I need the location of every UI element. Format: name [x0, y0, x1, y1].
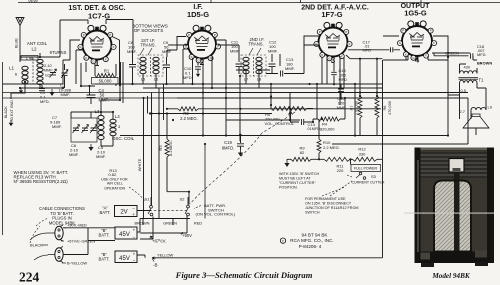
wire coil tops: [20, 20, 88, 57]
wire tube4 leads: [383, 53, 470, 60]
coil L7: [243, 57, 249, 61]
svg-text:MMF.: MMF.: [96, 154, 106, 159]
wire v3: [239, 76, 241, 141]
svg-text:F: F: [425, 54, 427, 58]
svg-text:P: P: [188, 33, 190, 37]
capacitor C19: [237, 144, 244, 146]
plug 1: [55, 226, 63, 240]
svg-text:"CURRENT CUTTER": "CURRENT CUTTER": [279, 181, 316, 185]
capacitor C13: [281, 71, 283, 77]
wire border right: [382, 60, 384, 258]
bus junction dots: [202, 91, 204, 93]
svg-text:P: P: [402, 29, 404, 33]
svg-text:Model 94BK: Model 94BK: [431, 272, 471, 280]
svg-text:TRANS.: TRANS.: [248, 42, 263, 47]
svg-text:270,000: 270,000: [354, 100, 359, 115]
transformer T1 primary: [460, 71, 478, 74]
wire output section: [448, 56, 486, 135]
wire bus8: [120, 135, 448, 137]
svg-text:OF SOCKETS: OF SOCKETS: [134, 28, 164, 33]
variable capacitor C6: [82, 128, 88, 130]
svg-text:S2: S2: [180, 197, 186, 202]
wire coil bottoms: [20, 82, 63, 88]
svg-text:330: 330: [359, 152, 366, 157]
svg-text:R1: R1: [104, 69, 110, 74]
svg-text:F: F: [105, 57, 107, 61]
top rule ticks: [211, 0, 421, 3]
IF1 core dashes: [150, 57, 152, 76]
svg-text:MFD.: MFD.: [477, 52, 487, 57]
svg-text:K: K: [321, 53, 323, 57]
IF2 core dashes: [253, 57, 255, 76]
svg-text:−: −: [133, 235, 136, 240]
svg-text:MUST BE LEFT AT: MUST BE LEFT AT: [279, 177, 311, 181]
resistor R10: [317, 139, 321, 153]
tube V2 1D5-G socket: [183, 25, 220, 67]
svg-text:F: F: [433, 41, 435, 45]
svg-text:L3: L3: [95, 109, 100, 114]
svg-text:B-YELLOW: B-YELLOW: [67, 261, 87, 266]
svg-text:T1: T1: [479, 78, 485, 83]
svg-text:RED: RED: [194, 221, 202, 226]
wire tube1 left: [63, 40, 80, 70]
svg-text:MMF.: MMF.: [230, 49, 240, 54]
battery B2: [115, 251, 137, 263]
svg-text:P: P: [319, 30, 321, 34]
resistor 48ohm box: [21, 56, 38, 61]
wire v7: [316, 84, 318, 119]
wire v5: [289, 93, 291, 121]
coil L8: [256, 57, 262, 61]
svg-text:MFD.: MFD.: [40, 99, 50, 104]
variable capacitor C3: [62, 73, 68, 75]
svg-text:TO EXT GND.: TO EXT GND.: [10, 99, 14, 122]
svg-text:AIR CELL: AIR CELL: [107, 182, 123, 186]
ground C19: [240, 150, 242, 153]
top rule: [18, 2, 500, 4]
svg-text:2-10: 2-10: [44, 64, 52, 68]
wire tube1 pin drops: [76, 37, 120, 87]
svg-text:OSC. COIL: OSC. COIL: [112, 136, 135, 141]
svg-text:MMF.: MMF.: [52, 124, 62, 129]
svg-text:F: F: [341, 54, 343, 58]
svg-text:S1: S1: [145, 197, 151, 202]
svg-text:8MFD.: 8MFD.: [222, 146, 235, 151]
svg-text:2.7: 2.7: [460, 109, 465, 114]
svg-text:45V: 45V: [119, 256, 130, 262]
svg-text:P: P: [430, 29, 432, 33]
wire white: [143, 98, 145, 219]
wire if can bottoms: [143, 74, 259, 88]
svg-text:RCA MFG. CO., INC.: RCA MFG. CO., INC.: [290, 238, 333, 243]
wire v21: [467, 98, 469, 144]
wire v12: [318, 119, 320, 159]
wire osc drop: [101, 84, 120, 115]
svg-text:1: 1: [95, 59, 100, 68]
svg-text:+: +: [133, 252, 136, 257]
svg-text:BATT.: BATT.: [99, 210, 110, 215]
svg-text:VOL. CONTROL: VOL. CONTROL: [265, 121, 296, 126]
svg-text:−: −: [132, 206, 135, 211]
svg-text:K: K: [85, 56, 87, 60]
svg-text:-B: -B: [153, 263, 158, 268]
wire yellow: [152, 257, 383, 259]
wire tube23 links: [168, 40, 318, 88]
ground osc: [90, 144, 92, 147]
wire v2: [225, 88, 227, 135]
svg-text:0.5: 0.5: [461, 88, 466, 93]
svg-text:1F7-G: 1F7-G: [321, 10, 342, 19]
svg-text:GREEN: GREEN: [163, 221, 177, 226]
wire tube2 grid pin: [167, 37, 186, 58]
wire bus5: [241, 108, 382, 110]
ground R9: [286, 160, 288, 163]
wire speaker down: [475, 128, 477, 135]
wire osc cluster: [71, 112, 113, 146]
wire bus1: [95, 83, 383, 85]
wire mech link: [190, 112, 295, 204]
svg-text:F: F: [113, 45, 115, 49]
trimmer 2-10 G2: [50, 73, 56, 75]
wire left border: [2, 62, 4, 235]
capacitor C4: [87, 95, 96, 98]
wire bus9: [313, 98, 345, 119]
variable capacitor C7a: [73, 128, 79, 130]
wire v1: [203, 84, 241, 136]
capacitor C14: [302, 119, 304, 125]
svg-text:(ON VOL. CONTROL): (ON VOL. CONTROL): [196, 212, 236, 217]
transformer T1 secondary: [460, 80, 478, 83]
svg-text:56,000: 56,000: [99, 79, 112, 84]
wire switch outputs: [140, 216, 190, 240]
svg-text:F: F: [210, 56, 212, 60]
svg-text:MMF.: MMF.: [268, 49, 278, 54]
svg-text:C19: C19: [224, 140, 232, 145]
wire v10: [359, 59, 361, 135]
svg-text:P: P: [109, 33, 111, 37]
svg-text:MMF: MMF: [44, 69, 53, 73]
ground C1: [51, 89, 53, 92]
tube V4 1G5-G socket: [397, 21, 436, 65]
wire bus2: [143, 87, 383, 89]
resistor R12: [353, 157, 378, 161]
capacitor C12: [269, 64, 276, 66]
svg-text:3: 3: [118, 124, 121, 129]
resistor R6: [375, 96, 379, 118]
coil L5: [140, 57, 146, 61]
svg-text:P: P: [345, 30, 347, 34]
coil L3: [98, 115, 104, 119]
svg-text:+67½V.-GREEN: +67½V.-GREEN: [67, 239, 95, 244]
wire tube2 pin drops: [183, 49, 212, 88]
transformer T1 core: [459, 78, 479, 80]
wire R1 loop: [81, 62, 123, 103]
svg-text:P: P: [214, 33, 216, 37]
battery A: [115, 206, 138, 217]
wire v11: [376, 59, 378, 135]
svg-text:BATT.: BATT.: [98, 256, 109, 261]
gnd arrow black: [10, 120, 12, 123]
svg-text:WITH 135V. 'B' SWITCH: WITH 135V. 'B' SWITCH: [279, 172, 320, 176]
antenna: [16, 18, 24, 58]
svg-text:YELLOW: YELLOW: [157, 253, 174, 258]
svg-text:BROWN: BROWN: [135, 221, 150, 226]
coil L6: [153, 57, 159, 61]
svg-text:1G5-G: 1G5-G: [404, 9, 427, 18]
wire v8: [339, 76, 341, 105]
capacitor C9: [163, 65, 170, 67]
wire v6: [271, 97, 313, 109]
svg-text:0.82: 0.82: [108, 172, 117, 177]
coil L9: [471, 107, 486, 110]
svg-text:OPERATION: OPERATION: [104, 186, 125, 190]
svg-text:430: 430: [464, 65, 471, 70]
svg-text:94 BT 94 BK: 94 BT 94 BK: [302, 233, 329, 238]
trimmer box: [71, 118, 97, 142]
svg-text:1D5-G: 1D5-G: [187, 10, 209, 19]
wire v16: [167, 114, 189, 205]
svg-text:ON 135V. 'B' DISCONNECT: ON 135V. 'B' DISCONNECT: [305, 202, 352, 206]
wire tube3 right pin: [346, 55, 383, 59]
svg-text:2.2 MEG.: 2.2 MEG.: [323, 145, 340, 150]
svg-text:S3: S3: [371, 174, 377, 179]
svg-text:2: 2: [200, 58, 205, 67]
wire bus10: [332, 136, 468, 145]
svg-text:−: −: [133, 258, 136, 263]
svg-text:8.2MEG.: 8.2MEG.: [168, 140, 173, 156]
svg-text:P: P: [83, 33, 85, 37]
svg-text:F: F: [349, 42, 351, 46]
capacitor C16: [338, 89, 344, 91]
wire v18: [158, 88, 160, 219]
capacitor C18: [471, 53, 473, 59]
svg-text:MMF.: MMF.: [127, 49, 137, 54]
wire tube1 cap wires: [106, 20, 133, 51]
potentiometer R5: [271, 107, 307, 111]
switch link dash: [145, 209, 189, 211]
resistor R2: [178, 107, 198, 111]
svg-text:VIEW!: VIEW!: [28, 0, 38, 3]
svg-text:FOR PERMANENT USE: FOR PERMANENT USE: [305, 197, 346, 201]
svg-text:MFD.: MFD.: [183, 75, 193, 80]
wire tube3 pin drops: [322, 56, 344, 88]
IF1 box: [138, 55, 163, 76]
svg-text:ANT COIL: ANT COIL: [27, 41, 48, 46]
svg-text:BLUE: BLUE: [15, 38, 19, 48]
svg-text:WHITE: WHITE: [137, 158, 142, 171]
resistor R4: [318, 117, 340, 121]
wire ant coupling: [3, 57, 64, 84]
svg-text:2.2 MEG.: 2.2 MEG.: [180, 116, 198, 121]
wire plug cables: [30, 233, 48, 260]
svg-text:JUNCTION OF R11&R12 FROM: JUNCTION OF R11&R12 FROM: [305, 206, 358, 210]
coil L2: [37, 59, 43, 63]
capacitor C8: [129, 65, 136, 67]
photo radio cabinet: [404, 148, 494, 268]
wire v4: [270, 84, 272, 105]
coil L4: [110, 119, 116, 123]
svg-text:L2: L2: [31, 47, 37, 52]
svg-text:6: 6: [15, 72, 18, 77]
IF2 box: [241, 55, 266, 76]
wire bus3: [162, 92, 468, 94]
wire L1 bottom to gnd: [11, 82, 25, 99]
svg-text:P-84205- 4: P-84205- 4: [299, 244, 322, 249]
svg-text:9TURNS: 9TURNS: [50, 50, 67, 55]
svg-text:820,000: 820,000: [320, 127, 335, 132]
wire bus4: [177, 97, 468, 99]
svg-text:L4: L4: [115, 114, 120, 119]
svg-text:C14: C14: [308, 122, 316, 127]
wire red drop: [204, 144, 206, 219]
svg-text:POSITION.: POSITION.: [279, 186, 298, 190]
capacitor C11: [236, 64, 243, 66]
resistor R9: [291, 157, 311, 161]
svg-text:Figure 3—Schematic Circuit Dia: Figure 3—Schematic Circuit Diagram: [175, 270, 313, 280]
svg-text:BLACK: BLACK: [4, 106, 8, 118]
svg-text:+67½V.: +67½V.: [152, 239, 166, 244]
svg-text:L1: L1: [9, 66, 15, 71]
variable capacitor C5: [91, 128, 97, 130]
battery B1: [115, 227, 137, 239]
capacitor C15: [331, 72, 337, 74]
svg-text:K: K: [405, 52, 407, 56]
svg-text:+: +: [132, 212, 135, 217]
plug dash lines: [30, 218, 48, 243]
wire tube4 pin drops: [383, 56, 448, 60]
wire v14: [286, 158, 288, 161]
svg-text:470,000: 470,000: [387, 100, 392, 115]
svg-text:+: +: [133, 228, 136, 233]
svg-text:+90V: +90V: [182, 233, 192, 238]
wire ant junctions: [39, 56, 41, 58]
svg-text:3: 3: [331, 56, 336, 65]
svg-text:.01MFD: .01MFD: [307, 127, 321, 131]
svg-text:FULL POWER: FULL POWER: [354, 167, 378, 171]
svg-text:C: C: [282, 239, 285, 243]
wire extra top: [236, 70, 270, 74]
wire bus7: [226, 119, 300, 121]
svg-text:BROWN: BROWN: [477, 61, 492, 66]
wire battery connections: [63, 211, 151, 258]
svg-text:220: 220: [337, 168, 344, 173]
resistor R1: [95, 74, 116, 78]
svg-text:1C7-G: 1C7-G: [88, 11, 110, 20]
svg-text:Nº 36935 RESISTOR(2.2Ω): Nº 36935 RESISTOR(2.2Ω): [14, 179, 69, 184]
svg-text:45V: 45V: [119, 232, 130, 238]
tube V3 1F7-G socket: [314, 22, 352, 65]
wire v9: [354, 84, 356, 135]
capacitor C1: [39, 89, 45, 91]
svg-text:SWITCH: SWITCH: [305, 211, 320, 215]
note dashes: [322, 175, 352, 196]
svg-text:BATT.: BATT.: [98, 233, 109, 238]
svg-text:L9: L9: [488, 105, 493, 110]
core dashes: [32, 58, 34, 84]
wire bus6: [152, 113, 273, 115]
svg-text:MMF.: MMF.: [285, 66, 295, 71]
svg-text:GREEN: GREEN: [445, 51, 459, 56]
resistor R11b: [324, 157, 350, 161]
switch S3 full power: [351, 165, 381, 172]
speaker: [463, 114, 489, 128]
wire v20: [147, 96, 149, 114]
ground C10: [197, 72, 199, 74]
tube V1 1C7-G socket: [78, 25, 116, 68]
svg-text:2V: 2V: [120, 209, 127, 215]
svg-text:82: 82: [300, 150, 305, 155]
resistor R7: [358, 96, 362, 118]
svg-text:BLACK: BLACK: [30, 243, 43, 248]
svg-text:TRANS.: TRANS.: [140, 43, 155, 48]
svg-text:CURRENT CUTTER: CURRENT CUTTER: [351, 181, 384, 185]
plug 2: [55, 248, 63, 262]
coil L1: [22, 66, 28, 70]
wire tube3 grid pin: [280, 36, 319, 66]
wire v17: [151, 93, 153, 206]
svg-text:G2: G2: [45, 74, 50, 78]
wire tube4 pin wires: [383, 36, 448, 57]
wire left avc: [3, 93, 178, 99]
svg-text:+90V.-MED: +90V.-MED: [67, 223, 87, 228]
svg-text:MMF.: MMF.: [69, 152, 79, 157]
svg-text:224: 224: [19, 270, 40, 285]
wire v19: [163, 84, 165, 120]
resistor R3: [165, 139, 169, 157]
